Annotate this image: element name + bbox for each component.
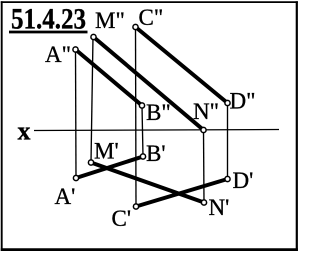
svg-text:B': B' [146,141,166,166]
svg-text:x: x [18,117,31,146]
x-axis [34,130,279,131]
svg-text:D': D' [233,168,254,193]
point B' [140,154,145,159]
point A' [73,175,78,180]
projection line D [227,103,229,179]
point M' [88,160,93,165]
point M" [91,34,96,39]
svg-text:A': A' [55,184,76,209]
point N' [201,200,206,205]
point C" [133,24,138,29]
projection line C [135,27,138,207]
point A" [73,47,78,52]
svg-text:M": M" [95,8,125,33]
svg-text:N": N" [193,99,219,124]
point D" [225,100,230,105]
svg-text:C': C' [112,206,132,231]
svg-text:C": C" [139,5,164,30]
segment A"B" [76,50,143,106]
segment C'D' [136,179,228,207]
point B" [139,103,144,108]
segment M'N' [91,163,204,203]
svg-text:B": B" [146,100,171,125]
segment C"D" [136,27,228,103]
projection line N [203,130,206,203]
svg-text:A": A" [45,42,71,67]
segment A'B' [76,157,143,179]
projection line A [75,50,78,179]
segment M"N" [94,37,204,130]
svg-text:N': N' [209,195,230,220]
title underline [9,31,88,34]
point C' [133,204,138,209]
projection line M [91,37,93,163]
svg-text:D": D" [230,89,256,114]
projection line B [142,106,143,157]
svg-text:M': M' [94,139,119,164]
svg-text:51.4.23: 51.4.23 [11,2,86,35]
point N" [201,127,206,132]
point D' [225,176,230,181]
